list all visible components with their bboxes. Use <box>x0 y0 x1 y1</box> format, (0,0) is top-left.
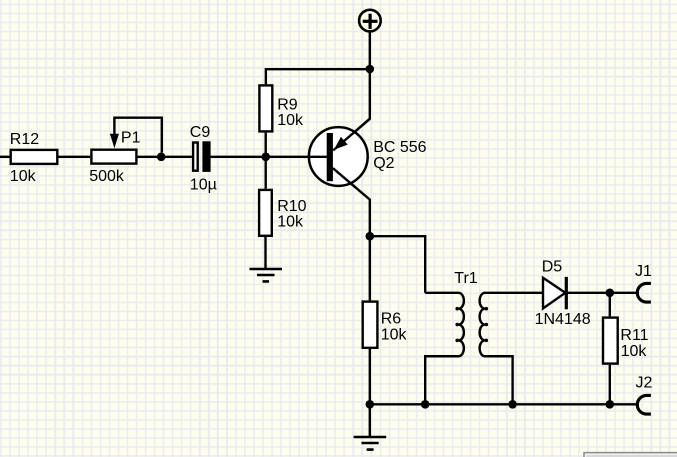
svg-text:500k: 500k <box>89 168 125 185</box>
svg-text:10k: 10k <box>621 343 648 360</box>
svg-text:10k: 10k <box>277 214 304 231</box>
svg-text:J1: J1 <box>635 263 652 280</box>
svg-text:P1: P1 <box>121 129 141 146</box>
svg-text:10k: 10k <box>381 326 408 343</box>
svg-text:R6: R6 <box>381 311 402 328</box>
svg-text:D5: D5 <box>542 259 563 276</box>
svg-text:Tr1: Tr1 <box>454 270 478 287</box>
svg-text:10µ: 10µ <box>190 177 217 194</box>
svg-text:1N4148: 1N4148 <box>535 311 591 328</box>
svg-text:R12: R12 <box>10 131 39 148</box>
svg-text:J2: J2 <box>636 374 653 391</box>
svg-text:10k: 10k <box>277 112 304 129</box>
svg-text:R9: R9 <box>277 96 298 113</box>
svg-text:C9: C9 <box>190 124 211 141</box>
svg-text:BC 556: BC 556 <box>373 139 426 156</box>
svg-text:Q2: Q2 <box>373 155 394 172</box>
svg-text:10k: 10k <box>10 168 37 185</box>
svg-text:R11: R11 <box>620 327 648 344</box>
